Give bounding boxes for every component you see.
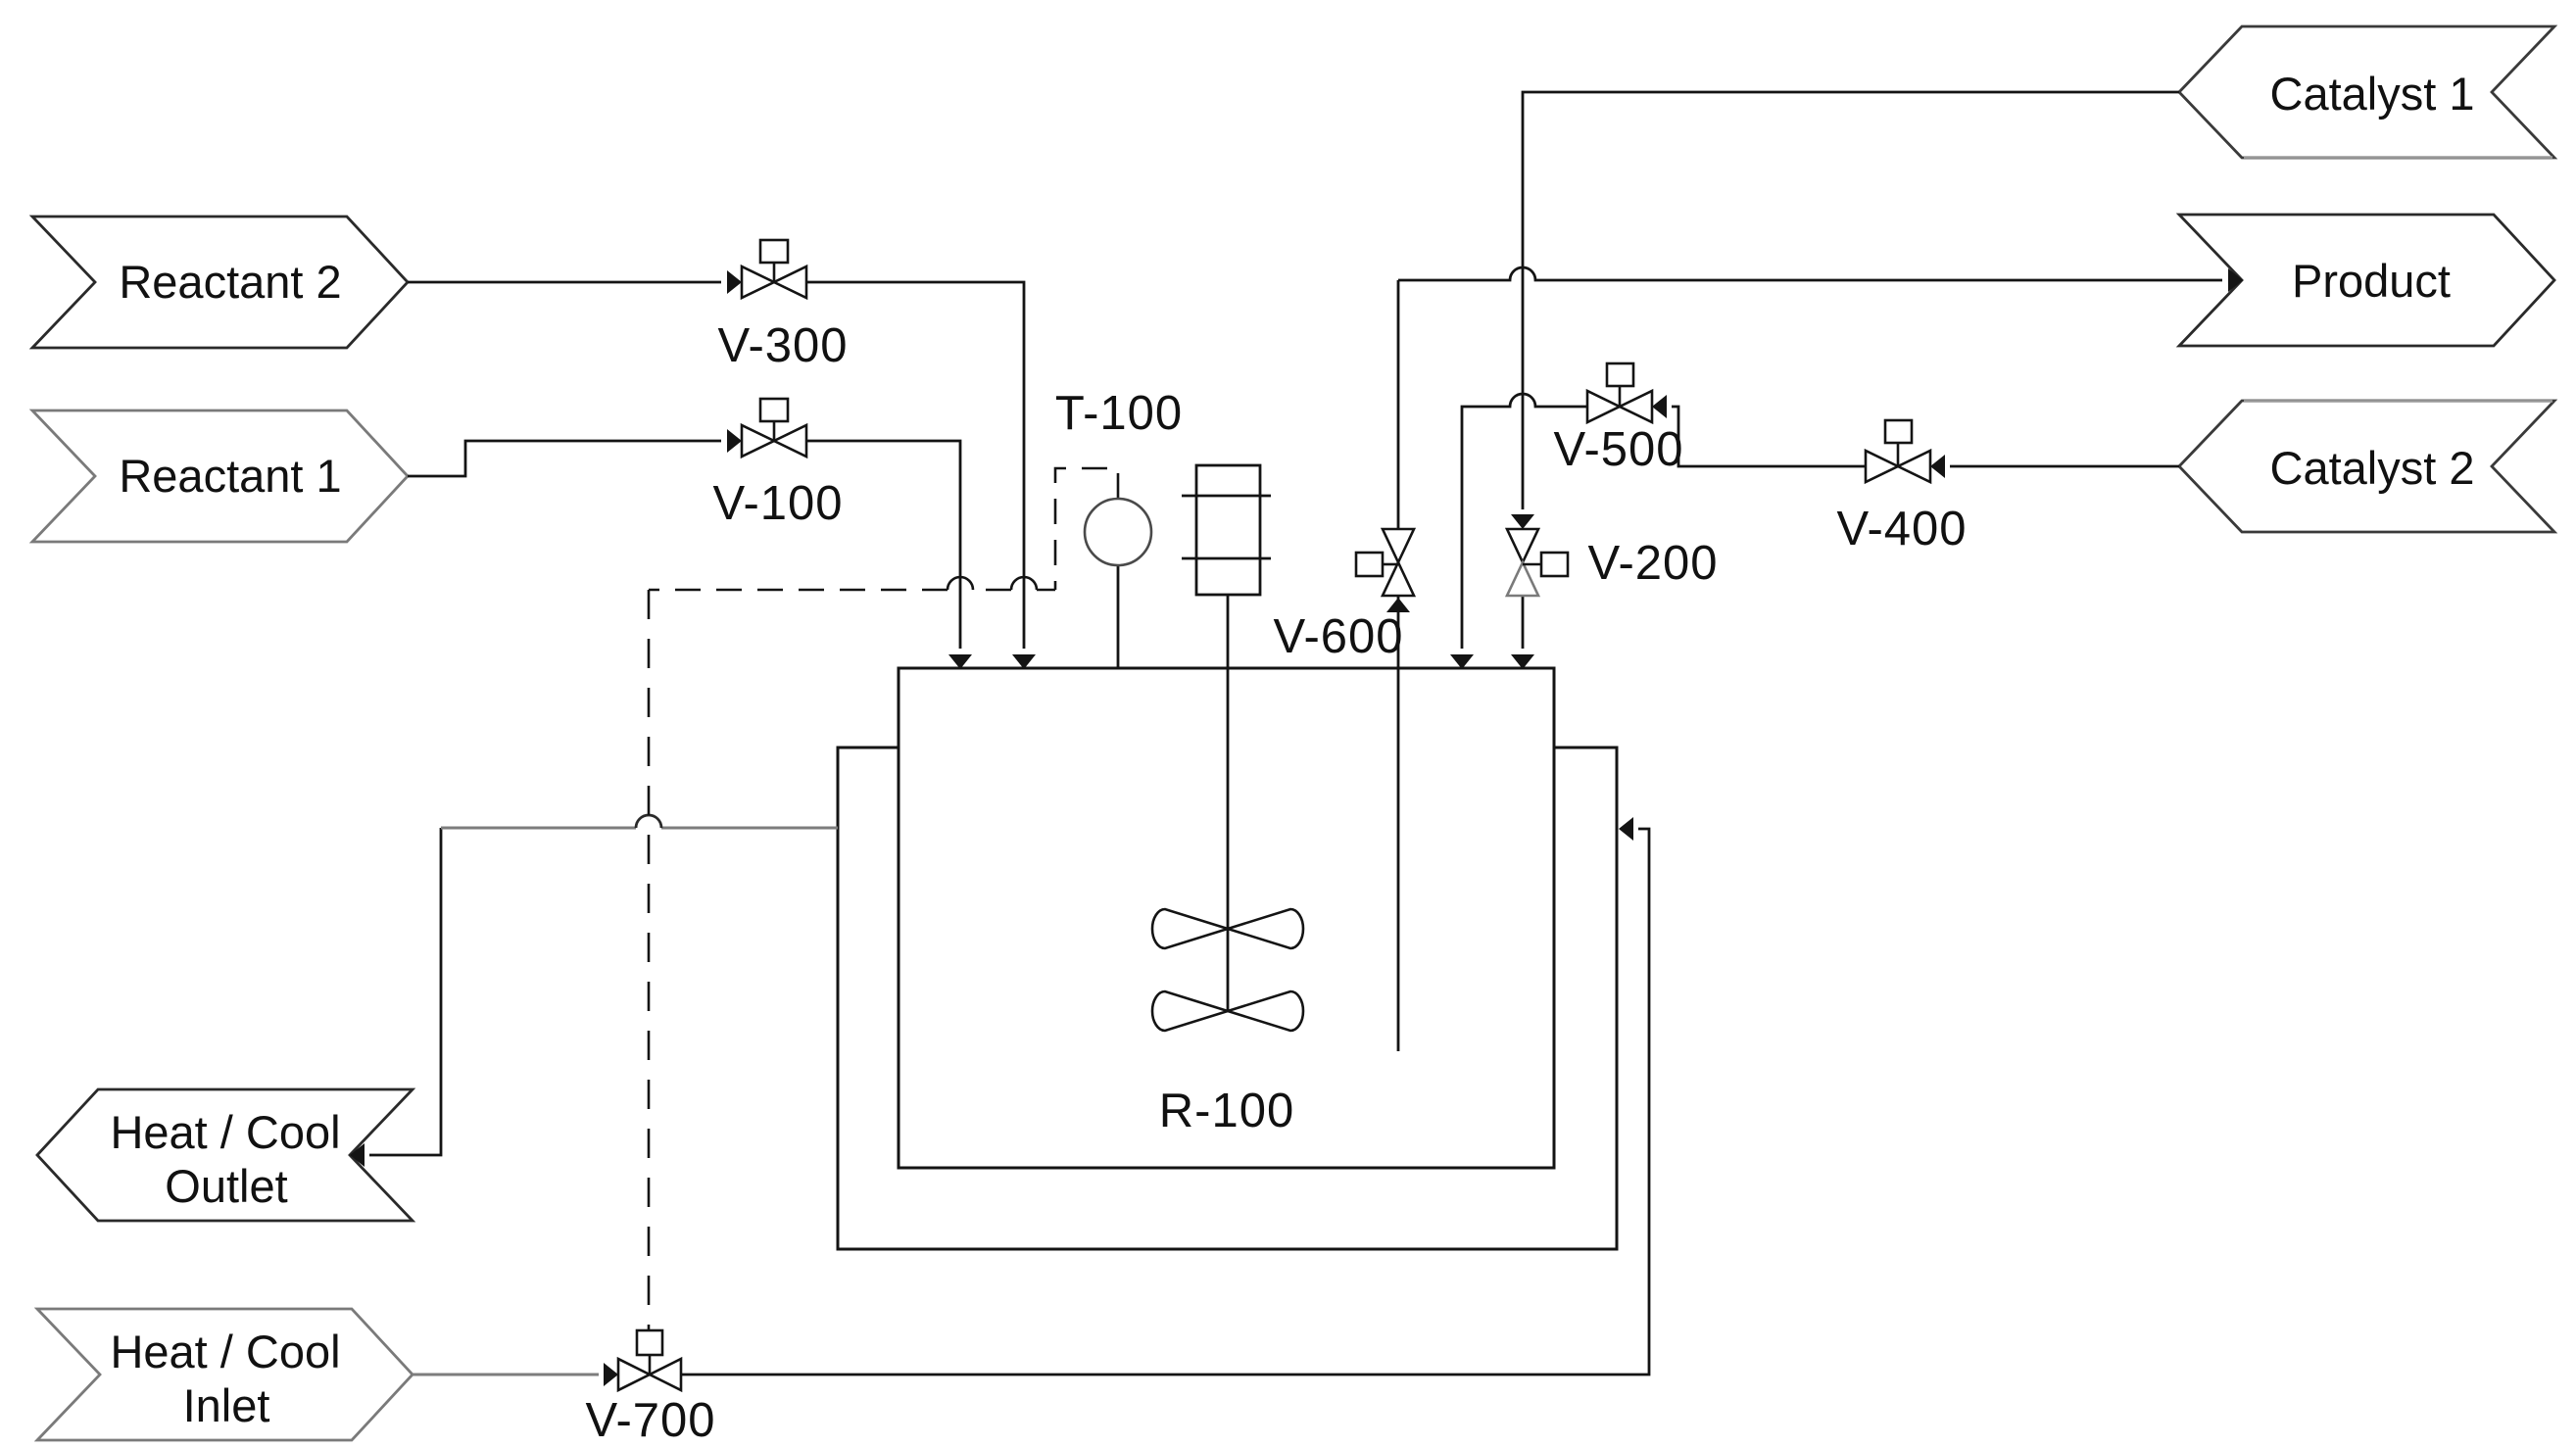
svg-text:Outlet: Outlet (165, 1160, 287, 1212)
svg-text:T-100: T-100 (1055, 387, 1183, 440)
svg-text:Catalyst 1: Catalyst 1 (2270, 68, 2475, 120)
svg-text:Catalyst 2: Catalyst 2 (2270, 442, 2475, 494)
svg-text:V-700: V-700 (585, 1394, 715, 1447)
svg-text:Reactant 2: Reactant 2 (119, 256, 341, 308)
svg-text:V-600: V-600 (1273, 610, 1403, 663)
svg-text:V-200: V-200 (1587, 537, 1718, 590)
svg-text:V-500: V-500 (1553, 423, 1683, 476)
svg-text:V-100: V-100 (712, 477, 843, 530)
svg-text:Heat / Cool: Heat / Cool (110, 1326, 340, 1377)
svg-text:Inlet: Inlet (183, 1379, 270, 1431)
svg-text:Heat / Cool: Heat / Cool (110, 1106, 340, 1158)
svg-text:Product: Product (2292, 255, 2451, 307)
svg-text:V-400: V-400 (1836, 503, 1967, 555)
svg-text:R-100: R-100 (1159, 1085, 1294, 1137)
svg-text:V-300: V-300 (717, 319, 848, 372)
svg-text:Reactant 1: Reactant 1 (119, 450, 341, 502)
